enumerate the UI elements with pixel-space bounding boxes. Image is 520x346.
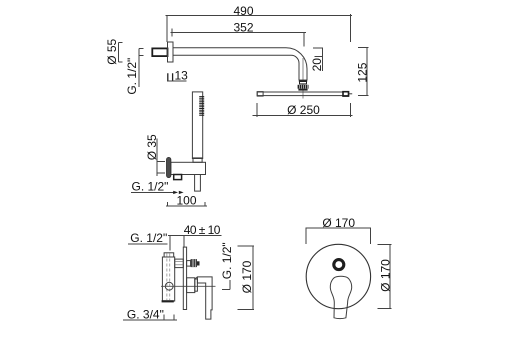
svg-text:20: 20 (310, 58, 324, 72)
dimension diameter 170 front right (377, 245, 392, 309)
dimension diameter 170 side (238, 246, 255, 310)
upper tip (197, 261, 200, 265)
wall nipple (152, 48, 167, 56)
mixer bottom outlet (162, 300, 174, 302)
cartridge housing (187, 278, 195, 293)
mixer body top cap (164, 253, 174, 257)
svg-text:100: 100 (176, 193, 196, 207)
shower head disc (257, 92, 352, 97)
cartridge step (195, 279, 198, 291)
trim plate circle front (306, 244, 370, 308)
arm centerline (302, 58, 304, 99)
svg-text:40 ± 10: 40 ± 10 (184, 223, 221, 237)
svg-text:125: 125 (355, 62, 369, 82)
mixer body hidden lines (167, 254, 170, 301)
svg-text:G. 1/2": G. 1/2" (220, 242, 234, 279)
svg-text:Ø 250: Ø 250 (287, 103, 320, 117)
svg-text:G. 1/2": G. 1/2" (130, 231, 167, 245)
svg-text:G. 1/2": G. 1/2" (125, 58, 139, 95)
upper knurled nut (191, 259, 197, 267)
dimension diameter 170 front top (306, 216, 371, 244)
mixer body (162, 257, 174, 301)
holder bracket (171, 162, 206, 174)
shower arm tube (173, 48, 307, 80)
wall flange (168, 42, 174, 62)
G 1/2 hand shower leader (131, 191, 176, 193)
hand shower wand (192, 92, 202, 159)
svg-text:Ø 55: Ø 55 (105, 38, 119, 64)
dimension 100 (166, 193, 207, 207)
wand spray knurl (199, 97, 204, 116)
svg-text:Ø 170: Ø 170 (378, 259, 392, 292)
G 3/4 underline (123, 315, 177, 320)
diameter 55 bracket (119, 42, 123, 62)
dimension 20 (310, 47, 324, 71)
lever handle front (330, 276, 351, 318)
dimension 490 line (166, 14, 353, 42)
svg-text:352: 352 (233, 21, 253, 35)
upper stem (187, 261, 191, 267)
hose stub (195, 175, 201, 192)
dimension diameter 250 (253, 103, 353, 117)
dimension 40 plus-minus 10 (168, 223, 222, 251)
G 1/2 mixer right leader (222, 280, 230, 290)
upper connector body-plate (175, 259, 184, 268)
diverter ring (334, 260, 344, 270)
svg-text:Ø 170: Ø 170 (322, 216, 355, 230)
svg-text:13: 13 (175, 69, 189, 83)
holder wall flange (167, 157, 171, 177)
arm connector nut (298, 80, 309, 91)
svg-text:G. 1/2": G. 1/2" (132, 179, 169, 193)
dimension 13 (167, 69, 188, 83)
diameter 35 bracket (157, 139, 165, 176)
G 1/2 callout top-left leader (139, 49, 144, 88)
svg-text:490: 490 (233, 4, 253, 18)
dimension 125 (355, 48, 369, 96)
holder outlet nub (174, 175, 182, 180)
wand collar (193, 158, 202, 162)
mixer circle port (165, 282, 173, 290)
G 1/2 mixer top underline (128, 243, 167, 245)
mixer lever side (197, 277, 212, 319)
dimension 352 line (170, 29, 306, 47)
escutcheon plate side (183, 247, 186, 309)
svg-text:Ø 170: Ø 170 (240, 260, 254, 293)
mixer centerline (161, 285, 216, 287)
